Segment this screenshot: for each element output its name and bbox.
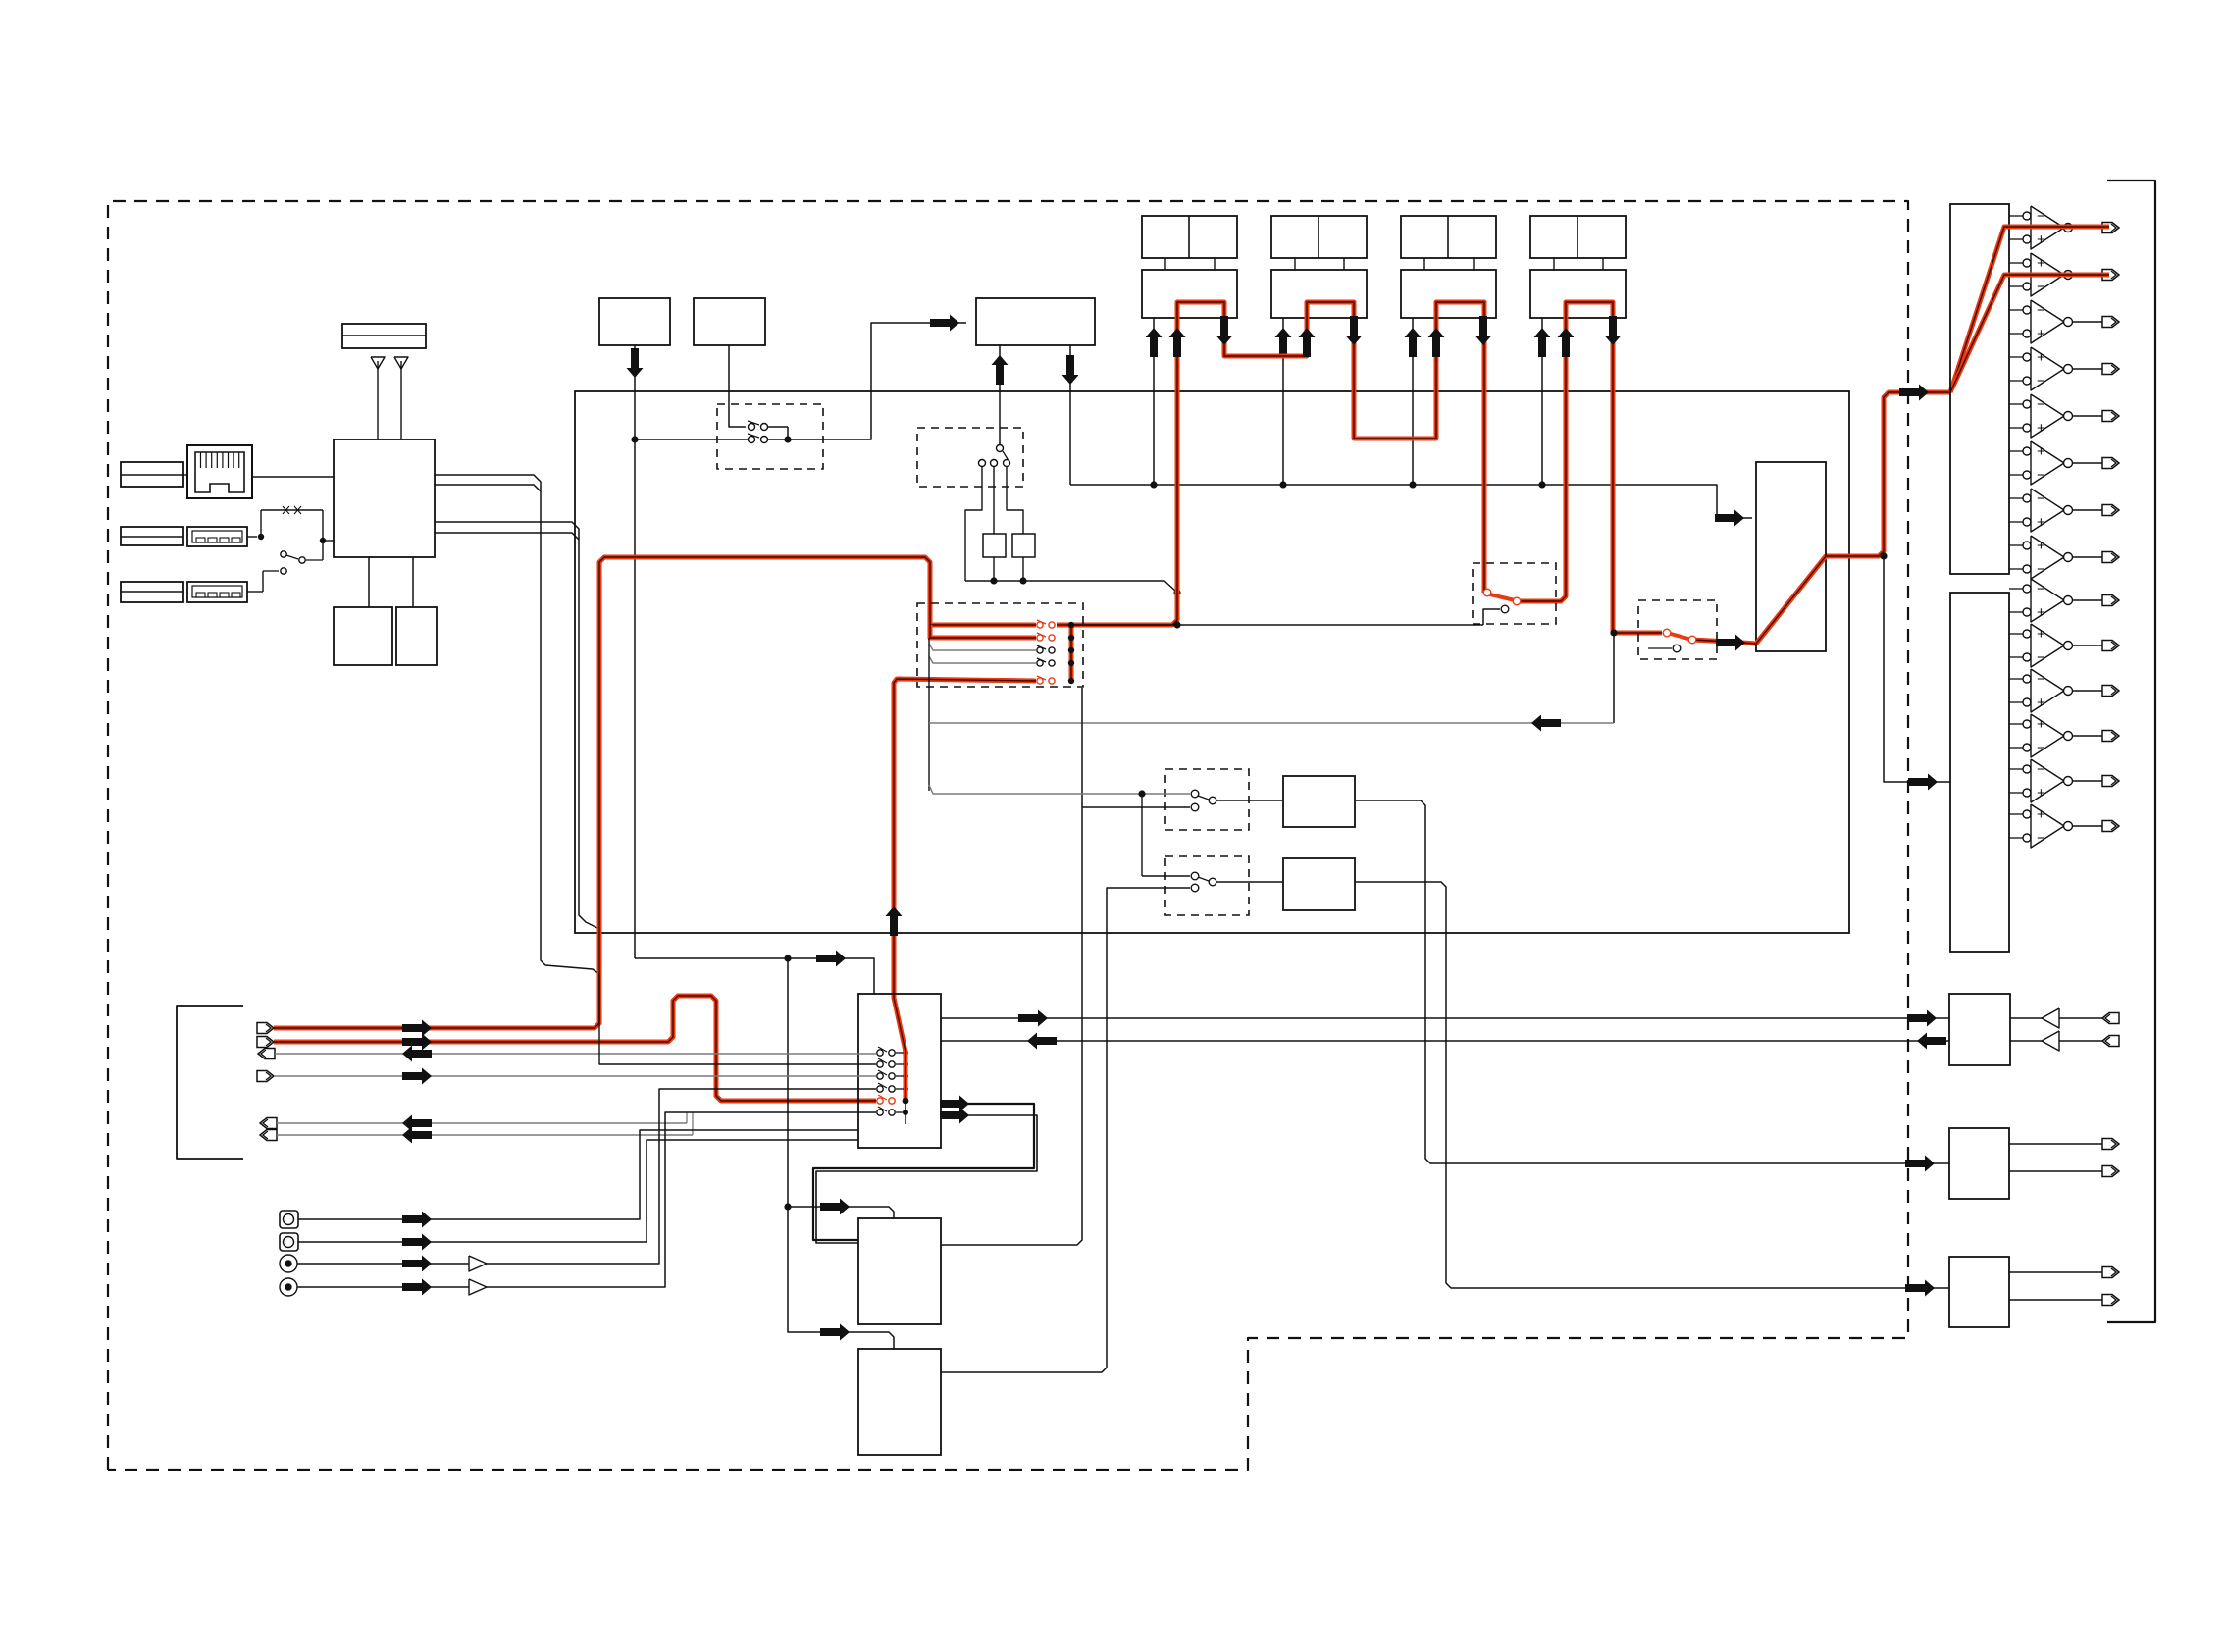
svg-text:+: + <box>2037 255 2045 272</box>
svg-text:+: + <box>2037 443 2045 460</box>
wire D1 out loop <box>941 807 1190 1245</box>
red input arrows <box>402 1020 432 1037</box>
input connector 2 (red) <box>257 1037 274 1048</box>
coax jack 2 <box>280 1278 297 1296</box>
box W <box>976 298 1095 345</box>
channel module 1 label pair <box>1142 216 1237 258</box>
zone out box 1 <box>1949 1128 2009 1199</box>
red fan to amp row 1 <box>1950 227 2109 392</box>
red inside volume <box>1756 556 1826 644</box>
wire to DSP D2 <box>839 1332 894 1349</box>
power amp 2 <box>2009 262 2023 264</box>
wire DIR alt out <box>1071 624 1483 626</box>
sub-module box 1 <box>334 607 392 665</box>
input mode dashed box <box>917 428 1023 487</box>
RJ45 jack <box>187 445 252 498</box>
svg-text:−: − <box>2037 761 2045 778</box>
wire RJ45 to module <box>252 476 334 478</box>
DIR gray row4 <box>929 656 1036 663</box>
wire tuner sub-modules <box>368 557 370 607</box>
USB select switch <box>247 536 257 538</box>
mode switch pole <box>997 445 1004 452</box>
aux switch 1 <box>1191 790 1199 798</box>
sub-module box 2 <box>396 607 437 665</box>
digital jack 1 <box>280 1211 298 1228</box>
wire branch to switch 2 <box>1141 794 1143 876</box>
red through record switch <box>1519 302 1662 633</box>
selector bar <box>905 1048 906 1124</box>
wire box W in from bottom <box>999 345 1001 444</box>
DIR switch circles <box>1037 622 1043 628</box>
svg-text:−: − <box>2037 373 2045 389</box>
main DSP block outline <box>575 391 1849 933</box>
record switch 2 alt contact <box>1648 647 1672 649</box>
red switch arm record <box>1490 594 1515 600</box>
wire coax 1 buffer <box>297 1263 469 1265</box>
red through volume to DAC <box>1756 392 1950 644</box>
wire selector to DSP input B <box>816 1115 1037 1243</box>
headphone box <box>1949 994 2010 1065</box>
channel module 4 wire to bus <box>1541 318 1543 485</box>
channel module 2 connect stubs <box>1294 258 1296 270</box>
wire tuner bundle to selector row2 <box>599 973 876 1064</box>
channel module 3 connect stubs <box>1423 258 1425 270</box>
DAC box 2 <box>1950 593 2009 952</box>
speaker-terminal bracket <box>2107 181 2155 1322</box>
power amp 13 <box>2009 768 2023 770</box>
power amp 7 <box>2009 497 2023 499</box>
channel module 4 label pair <box>1530 216 1626 258</box>
wire to DSP D1 <box>788 958 839 1332</box>
antenna 1 <box>371 357 385 369</box>
headphone amp 2 <box>2010 1040 2042 1042</box>
record switch dashed box 2 <box>1638 600 1717 659</box>
svg-text:−: − <box>2037 581 2045 597</box>
red path from input 2 to selector <box>274 996 876 1101</box>
DAC box 1 <box>1950 204 2009 574</box>
wire S1 down <box>634 345 636 958</box>
wire relay out to box W <box>788 323 966 439</box>
resistor network bracket <box>965 467 982 581</box>
DIR dashed box <box>917 603 1083 687</box>
LAN connector label box <box>121 462 183 487</box>
svg-text:−: − <box>2037 561 2045 578</box>
red selector bar overlay <box>904 1050 908 1101</box>
svg-text:+: + <box>2037 538 2045 554</box>
mode contacts <box>979 460 986 467</box>
volume box <box>1756 462 1826 651</box>
channel module 4 connect stubs <box>1553 258 1555 270</box>
DIR gray row3 <box>929 644 1036 650</box>
zone out box 2 <box>1949 1257 2009 1327</box>
headphone amp 1 <box>2010 1017 2042 1019</box>
wire box W down to bus <box>1069 345 1071 485</box>
zone out 2 lines <box>2009 1271 2102 1273</box>
wire digital 1 to selector <box>298 1130 858 1219</box>
wire tuner audio out pair B <box>435 522 599 929</box>
DSP box D2 <box>858 1349 941 1455</box>
wire selector to headphone out <box>941 1017 1949 1019</box>
svg-text:−: − <box>2037 490 2045 507</box>
power amp 4 <box>2009 356 2023 358</box>
aux switch dashed box 1 <box>1165 769 1249 830</box>
svg-text:+: + <box>2037 326 2045 342</box>
aux box J2 <box>1283 858 1355 910</box>
power amp 3 <box>2009 309 2023 311</box>
tuner/network module box <box>334 439 435 557</box>
power amp 14 <box>2009 813 2023 815</box>
antenna 2 <box>394 357 408 369</box>
bus to channel modules <box>1070 485 1752 518</box>
red arrows on module verticals <box>1169 328 1186 357</box>
channel module 2 label pair <box>1271 216 1367 258</box>
aux switch 2 <box>1191 872 1199 880</box>
red fan to amp row 2 <box>1950 275 2109 392</box>
channel module 2 box <box>1271 270 1367 318</box>
relay contact row1 <box>749 424 755 431</box>
resistor rail <box>965 581 1177 593</box>
selector input from S1 chain <box>635 958 874 994</box>
svg-text:+: + <box>2037 695 2045 711</box>
wire J2 to zone box <box>1355 882 1949 1288</box>
input connector 1 (red) <box>257 1023 274 1034</box>
output connector 3 <box>258 1049 275 1059</box>
output connector 6 <box>260 1130 277 1141</box>
wire DIR black vertical <box>928 638 930 791</box>
red DIR input bar <box>1069 625 1074 681</box>
resistor R1 <box>993 467 995 534</box>
svg-text:+: + <box>2037 626 2045 643</box>
wire black junction down to DAC2 <box>1880 552 1887 559</box>
wire D2 out loop <box>941 888 1190 1372</box>
wire J1 to zone box <box>1355 800 1949 1163</box>
DIR bar junction dots <box>1068 622 1074 628</box>
svg-text:+: + <box>2037 785 2045 801</box>
power amp 1 <box>2009 215 2023 217</box>
power amp 11 <box>2009 678 2023 680</box>
svg-text:−: − <box>2037 396 2045 413</box>
relay dashed box <box>717 404 823 469</box>
relay contact row2 <box>635 439 748 440</box>
power amp 9 <box>2009 588 2023 590</box>
output connector 5 <box>260 1118 277 1129</box>
power amp 6 <box>2009 450 2023 452</box>
svg-text:−: − <box>2037 740 2045 756</box>
box S1 <box>599 298 670 345</box>
svg-text:+: + <box>2037 716 2045 733</box>
svg-text:+: + <box>2037 420 2045 437</box>
wire gray feed <box>929 785 1190 794</box>
svg-text:+: + <box>2037 349 2045 366</box>
channel module 1 wire to bus <box>1153 318 1155 485</box>
USB1 label box <box>121 527 183 545</box>
svg-text:−: − <box>2037 649 2045 666</box>
record switch dashed box 1 <box>1473 563 1556 624</box>
channel module 2 wire to bus <box>1282 318 1284 485</box>
red DIR switch row2 branch <box>930 625 1036 638</box>
aux box J1 <box>1283 776 1355 827</box>
aux switch dashed box 2 <box>1165 856 1249 915</box>
channel module 1 connect stubs <box>1164 258 1166 270</box>
svg-text:+: + <box>2037 514 2045 531</box>
front input bracket <box>177 1006 243 1159</box>
wire tuner audio out pair A <box>435 475 599 974</box>
power amp 5 <box>2009 403 2023 405</box>
svg-text:+: + <box>2037 604 2045 621</box>
zone out 1 lines <box>2009 1143 2102 1145</box>
wire digital 2 to selector <box>298 1140 858 1242</box>
channel module 3 label pair <box>1401 216 1496 258</box>
power amp 10 <box>2009 633 2023 635</box>
FL display box <box>342 324 426 348</box>
wire headphone return <box>941 1040 1949 1042</box>
svg-text:+: + <box>2037 806 2045 823</box>
channel module 3 box <box>1401 270 1496 318</box>
USB2 connector <box>187 582 247 602</box>
wire S2 to relay <box>729 345 746 427</box>
coax jack 1 <box>280 1255 297 1272</box>
USB2 label box <box>121 582 183 602</box>
svg-text:−: − <box>2037 279 2045 295</box>
USB2 wire to switch <box>247 591 263 593</box>
digital jack 2 <box>280 1233 298 1251</box>
channel module 1 box <box>1142 270 1237 318</box>
selector switch rows <box>896 1052 906 1054</box>
wire selector to DSP input A <box>813 1104 1034 1240</box>
svg-text:−: − <box>2037 671 2045 688</box>
svg-text:+: + <box>2037 232 2045 248</box>
wire feedback from record switch <box>1613 633 1615 723</box>
svg-text:−: − <box>2037 208 2045 225</box>
channel module 3 wire to bus <box>1412 318 1414 485</box>
DSP box D1 <box>858 1218 941 1324</box>
selector box <box>858 994 941 1148</box>
red into volume box <box>1692 640 1756 644</box>
red overlay amp outputs <box>2004 225 2109 230</box>
red path from input 1 through DIR <box>274 557 1036 1028</box>
input connector 4 <box>257 1071 274 1082</box>
wire coax 2 buffer <box>297 1286 469 1288</box>
power amp 8 <box>2009 544 2023 546</box>
svg-text:−: − <box>2037 830 2045 847</box>
USB1 connector <box>187 527 247 546</box>
box S2 <box>694 298 765 345</box>
resistor R2 <box>1007 467 1023 534</box>
red selector output up <box>894 679 1036 1101</box>
power amp 12 <box>2009 723 2023 725</box>
red DIR output to module 1 and chain to amps <box>1057 623 1071 628</box>
main unit dashed border <box>108 201 1908 1470</box>
svg-text:−: − <box>2037 467 2045 484</box>
svg-text:−: − <box>2037 302 2045 319</box>
channel module 4 box <box>1530 270 1626 318</box>
wire label to RJ45 <box>183 474 187 476</box>
